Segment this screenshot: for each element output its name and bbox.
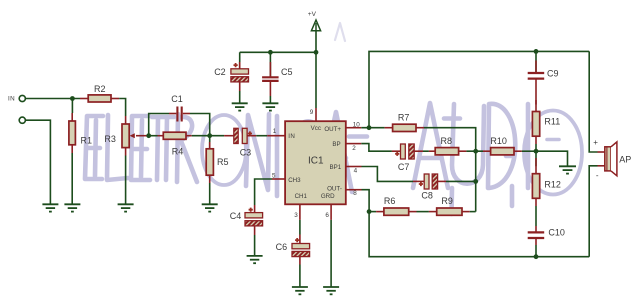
pin 2 (BP) — [346, 144, 362, 152]
wire — [26, 98, 80, 100]
ground — [262, 103, 278, 110]
wire pin8 down — [362, 190, 590, 257]
speaker AP — [593, 138, 631, 180]
junction — [367, 209, 372, 214]
pin 5 (CH3) — [272, 172, 285, 179]
wire — [535, 144, 537, 166]
svg-text:R4: R4 — [172, 146, 184, 156]
svg-text:+V: +V — [308, 11, 317, 18]
svg-text:R2: R2 — [94, 84, 106, 94]
junction — [207, 133, 212, 138]
wire — [254, 235, 256, 256]
svg-text:1: 1 — [273, 128, 277, 135]
svg-text:8: 8 — [353, 190, 357, 197]
wire — [535, 245, 537, 257]
junction — [473, 149, 478, 154]
svg-text:R6: R6 — [384, 196, 396, 206]
svg-text:C3: C3 — [240, 147, 252, 157]
junction — [70, 96, 75, 101]
capacitor C6 — [276, 235, 310, 265]
wire from speaker minus — [589, 166, 597, 257]
svg-text:R5: R5 — [217, 157, 229, 167]
wire — [369, 211, 376, 213]
svg-text:3: 3 — [294, 212, 298, 219]
svg-text:R9: R9 — [441, 196, 453, 206]
wire — [522, 150, 536, 152]
svg-text:5: 5 — [272, 172, 276, 179]
wire — [535, 100, 537, 105]
resistor R2 — [80, 84, 119, 102]
power +V — [308, 11, 321, 31]
resistor R9 — [429, 196, 470, 215]
svg-text:OUT+: OUT+ — [324, 126, 341, 133]
svg-text:2: 2 — [352, 145, 356, 152]
junction — [473, 179, 478, 184]
svg-text:BP: BP — [332, 141, 340, 148]
svg-text:C8: C8 — [421, 191, 433, 201]
svg-text:BP1: BP1 — [329, 164, 341, 171]
terminal IN top — [19, 95, 25, 101]
svg-text:C1: C1 — [171, 94, 183, 104]
ground — [292, 287, 308, 294]
svg-text:R10: R10 — [490, 136, 507, 146]
IC U1 IC1 — [285, 121, 346, 204]
wire — [71, 153, 73, 204]
ground — [559, 166, 576, 173]
pin 6 (GRD) — [325, 204, 331, 220]
junction — [146, 133, 151, 138]
capacitor C3 — [224, 128, 256, 157]
ground — [118, 204, 134, 211]
wire — [269, 96, 271, 103]
wire — [149, 114, 169, 136]
terminal IN bottom — [19, 117, 25, 123]
ground — [247, 256, 263, 263]
svg-text:IN: IN — [288, 133, 295, 140]
potentiometer R3 — [104, 116, 146, 156]
svg-text:9: 9 — [310, 109, 314, 116]
svg-text:-: - — [596, 171, 599, 180]
capacitor C8 — [413, 174, 446, 201]
wire pin2 to C7 — [361, 144, 392, 152]
pin 8 (OUT-/GRD) — [346, 190, 362, 197]
capacitor C2 — [214, 52, 248, 91]
ground — [42, 204, 58, 211]
svg-text:C6: C6 — [276, 242, 288, 252]
resistor R4 — [158, 132, 192, 156]
svg-text:IN: IN — [8, 95, 15, 102]
wire pin3 to C6 — [299, 220, 301, 235]
wire pin5 to C4 — [255, 179, 272, 205]
resistor R12 — [532, 158, 561, 206]
pin 4 (BP1) — [346, 167, 362, 175]
wire — [466, 150, 483, 152]
wire — [26, 120, 51, 204]
svg-text:R11: R11 — [544, 117, 560, 127]
wire — [190, 114, 210, 136]
capacitor C10 — [528, 226, 565, 245]
wire — [417, 211, 429, 213]
svg-text:Vcc: Vcc — [311, 125, 321, 132]
wire — [256, 135, 267, 137]
pin 10 (OUT+) — [346, 121, 362, 128]
resistor R10 — [483, 136, 522, 155]
svg-text:R1: R1 — [81, 135, 93, 145]
wire — [446, 180, 476, 182]
svg-text:6: 6 — [325, 212, 329, 219]
svg-text:R7: R7 — [398, 112, 410, 122]
wire to speaker plus — [589, 51, 597, 152]
ground — [202, 204, 218, 211]
resistor R6 — [376, 196, 416, 215]
svg-text:C2: C2 — [214, 67, 226, 77]
wire — [470, 211, 476, 213]
junction — [268, 50, 273, 55]
svg-text:CH3: CH3 — [288, 177, 301, 184]
junction — [314, 50, 319, 55]
resistor R8 — [429, 136, 467, 155]
resistor R7 — [385, 112, 424, 131]
wire — [299, 265, 301, 288]
wire — [147, 135, 158, 137]
ground — [64, 204, 80, 211]
wire to right ground — [536, 151, 568, 166]
svg-text:IC1: IC1 — [308, 156, 324, 167]
wire top rail — [369, 51, 589, 127]
capacitor C1 — [169, 94, 190, 121]
svg-text:C7: C7 — [398, 162, 410, 172]
pin 9 (Vcc) — [310, 108, 316, 121]
resistor R1 — [69, 113, 92, 153]
svg-text:4: 4 — [354, 168, 358, 175]
svg-text:+: + — [593, 138, 598, 147]
svg-text:C5: C5 — [281, 67, 293, 77]
wire — [71, 99, 73, 114]
wire pin6 to ground — [330, 220, 332, 287]
wire — [192, 135, 224, 137]
svg-text:C10: C10 — [548, 227, 565, 237]
capacitor C9 — [528, 51, 559, 104]
resistor R5 — [206, 136, 228, 183]
svg-text:10: 10 — [353, 121, 361, 128]
junction — [367, 125, 372, 130]
svg-text:AP: AP — [619, 155, 631, 165]
capacitor C7 — [392, 144, 423, 172]
wire — [535, 206, 537, 226]
junction — [534, 254, 539, 259]
svg-text:OUT-: OUT- — [327, 185, 342, 192]
wire — [423, 150, 429, 152]
wire — [240, 31, 316, 108]
wire — [209, 183, 211, 204]
wire pin4 to C8 — [362, 167, 414, 182]
svg-text:CH1: CH1 — [295, 193, 308, 200]
pin 1 (IN) — [267, 128, 285, 136]
ground — [232, 103, 248, 110]
svg-text:R3: R3 — [104, 134, 116, 144]
ground — [323, 287, 339, 294]
wire — [424, 128, 476, 212]
junction — [534, 149, 539, 154]
svg-text:C4: C4 — [230, 211, 242, 221]
junction — [534, 49, 539, 54]
resistor R11 — [532, 105, 560, 145]
capacitor C4 — [230, 205, 263, 235]
pin 3 (CH1) — [294, 204, 300, 220]
svg-text:R8: R8 — [441, 136, 453, 146]
svg-text:GRD: GRD — [321, 193, 335, 200]
wire — [125, 156, 127, 205]
wire — [239, 91, 241, 103]
wire — [119, 99, 125, 117]
svg-text:C9: C9 — [547, 68, 559, 78]
capacitor C5 — [262, 52, 292, 96]
svg-text:R12: R12 — [544, 180, 561, 190]
wire pin10 row — [361, 127, 384, 129]
